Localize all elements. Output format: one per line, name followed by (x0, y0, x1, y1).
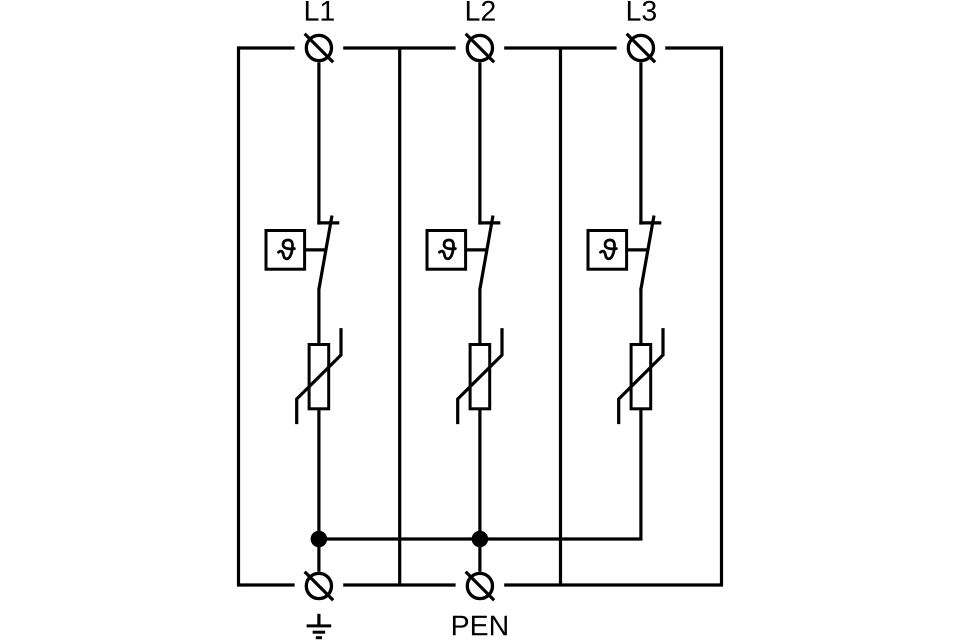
wire L1 switch to varistor (317, 288, 320, 345)
thermal disconnect switch F2 fixed contact (478, 221, 500, 224)
thermal sensor box theta F2 (427, 231, 466, 270)
enclosure outline left border (237, 46, 240, 586)
thermal disconnect switch F3 fixed contact (639, 221, 661, 224)
wire L2 switch to varistor (478, 288, 481, 345)
varistor RV2 diagonal (458, 328, 502, 424)
varistor RV3 diagonal (619, 328, 663, 424)
wire L1 varistor to junction (317, 409, 320, 539)
section divider 2 (559, 48, 562, 585)
varistor RV2 body (470, 345, 490, 409)
wire L1 terminal to switch (317, 62, 320, 224)
terminal PEN (466, 572, 495, 601)
wire L3 terminal to switch (639, 62, 642, 224)
link thermal box to blade F1 (305, 248, 326, 251)
thermal sensor box theta F3 (588, 231, 627, 270)
label PEN (453, 616, 507, 636)
wire L3 switch to varistor (639, 288, 642, 345)
junction node dot L1 bus (311, 531, 328, 548)
link thermal box to blade F2 (466, 248, 487, 251)
terminal L1 (305, 34, 334, 63)
terminal L2 (466, 34, 495, 63)
label L2 (467, 1, 495, 21)
thermal disconnect switch F1 moving blade (319, 216, 332, 290)
wire L2 varistor to junction (478, 409, 481, 539)
thermal disconnect switch F3 moving blade (641, 216, 654, 290)
terminal earth (305, 572, 334, 601)
thermal disconnect switch F1 fixed contact (317, 221, 339, 224)
link thermal box to blade F3 (627, 248, 648, 251)
label L3 (628, 1, 656, 21)
ground symbol (307, 614, 332, 638)
label L1 (306, 1, 334, 21)
varistor RV1 body (309, 345, 329, 409)
junction node dot L2 bus (472, 531, 489, 548)
enclosure outline right border (720, 46, 723, 586)
enclosure outline bottom border segments (239, 583, 722, 586)
wire L2 terminal to switch (478, 62, 481, 224)
section divider 1 (398, 48, 401, 585)
thermal disconnect switch F2 moving blade (480, 216, 493, 290)
varistor RV3 body (631, 345, 651, 409)
thermal sensor box theta F1 (266, 231, 305, 270)
wire L3 varistor down and left to junction bus (319, 409, 641, 539)
wire junction to PEN terminal (478, 539, 481, 572)
varistor RV1 diagonal (297, 328, 341, 424)
wire junction to earth terminal (317, 539, 320, 572)
terminal L3 (627, 34, 656, 63)
enclosure outline top border segments (239, 46, 722, 49)
